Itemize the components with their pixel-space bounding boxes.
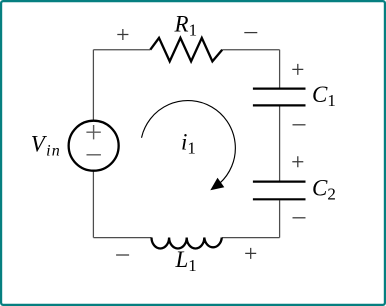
minus sign inside source [87,154,101,156]
voltage - sign below C2 [293,217,306,219]
wire top-right segment [222,49,279,51]
wire bottom-left segment [93,237,151,239]
voltage - sign below C1 [293,124,306,126]
mesh current arrow i1 [142,101,236,184]
voltage source Vin circle [69,121,119,171]
capacitor C2 [253,182,306,200]
voltage + sign above C2 [292,156,303,167]
voltage + sign at inductor right [245,248,256,259]
wire right middle [279,106,281,180]
voltage + sign at resistor left [117,29,128,40]
wire right upper [279,50,281,88]
wire bottom-right segment [222,237,280,239]
voltage - sign at inductor left [116,254,129,256]
wire right lower [279,200,281,237]
voltage + sign above C1 [292,64,303,75]
capacitor C1 [253,89,306,106]
voltage - sign at resistor right [244,32,257,34]
wire left lower [92,170,94,237]
plus sign inside source [86,125,100,139]
resistor R1 [150,38,222,62]
arrowhead of i1 [210,178,224,190]
wire left upper [92,50,94,122]
wire top-left segment [93,49,150,51]
inductor L1 [152,238,222,249]
